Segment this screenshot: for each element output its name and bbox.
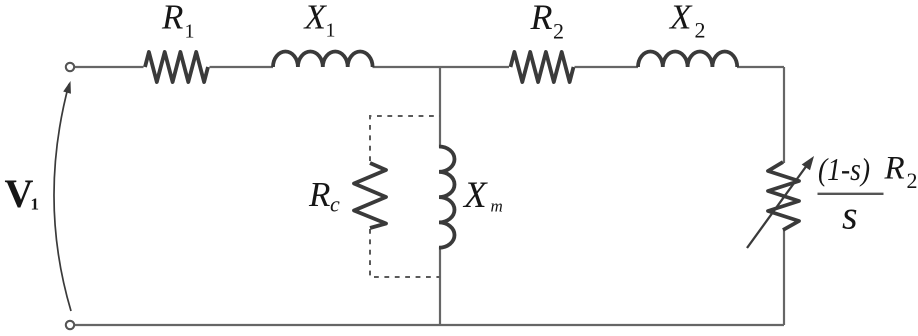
svg-text:V: V	[5, 171, 34, 216]
wire: X1 to R2 (through top node)	[373, 66, 510, 68]
svg-text:R: R	[884, 151, 905, 187]
inductor X2	[638, 51, 737, 67]
svg-text:R: R	[530, 0, 553, 37]
dashed box around core-loss branch (bottom)	[370, 229, 440, 277]
inductor Xm (vertical magnetizing branch)	[439, 147, 455, 248]
terminal: top-left input	[66, 63, 74, 71]
terminal: bottom-left input	[66, 321, 74, 329]
variable resistor arrowhead	[802, 156, 814, 170]
wire: bottom rail	[75, 324, 785, 326]
svg-text:R: R	[308, 175, 330, 214]
svg-text:X: X	[303, 0, 328, 37]
wire: right branch upper segment	[783, 67, 785, 163]
svg-text:1: 1	[326, 20, 336, 42]
svg-text:X: X	[668, 0, 693, 37]
wire: top left from terminal to R1	[75, 66, 144, 68]
V1 source arrow arc	[54, 84, 71, 311]
svg-text:R: R	[161, 0, 183, 37]
V1 arrowhead	[63, 81, 71, 94]
wire: R1 to X1	[210, 66, 274, 68]
resistor R2	[511, 52, 574, 82]
variable resistor arrow shaft	[747, 161, 810, 248]
svg-text:X: X	[462, 175, 488, 216]
variable resistor zigzag (1-s)R2/s	[768, 162, 799, 230]
wire: middle shunt branch vertical lower	[439, 247, 441, 325]
svg-text:2: 2	[695, 18, 706, 43]
fraction bar	[818, 193, 884, 195]
resistor R1	[145, 52, 208, 82]
wire: right branch lower segment	[783, 229, 785, 325]
svg-text:1: 1	[185, 21, 195, 43]
wire: R2 to X2	[575, 66, 639, 68]
resistor Rc (vertical, in dashed branch)	[354, 163, 386, 228]
svg-text:m: m	[491, 197, 503, 216]
svg-text:1: 1	[31, 195, 40, 214]
wire: middle shunt branch vertical upper	[439, 67, 441, 148]
wire: X2 to top-right corner	[737, 66, 784, 68]
svg-text:2: 2	[553, 19, 564, 44]
svg-text:s: s	[842, 193, 858, 238]
svg-text:c: c	[330, 192, 340, 217]
svg-text:(1-s): (1-s)	[818, 152, 870, 187]
inductor X1	[273, 51, 373, 67]
dashed box around core-loss branch (top)	[370, 116, 440, 161]
svg-text:2: 2	[907, 168, 918, 193]
